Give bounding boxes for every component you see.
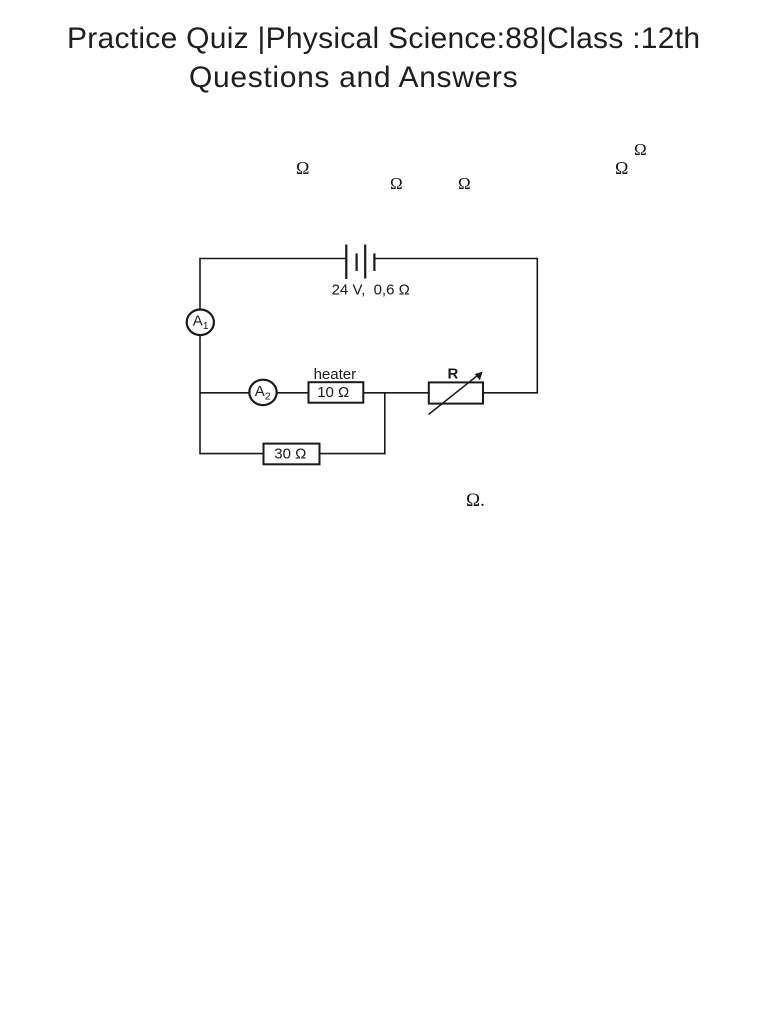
ammeter A2	[249, 380, 276, 405]
title line 1	[67, 19, 700, 59]
svg-text:heater: heater	[314, 366, 357, 383]
title line 2	[189, 58, 518, 98]
resistor R box	[429, 382, 483, 403]
node omega-3	[458, 175, 471, 192]
value label 10 ohm	[317, 384, 349, 401]
wire left vertical lower	[199, 335, 201, 454]
battery B1	[346, 245, 374, 280]
wire left vertical upper	[199, 258, 201, 310]
label R	[448, 366, 459, 383]
wire A2 to heater	[277, 392, 308, 394]
svg-text:R: R	[448, 366, 459, 383]
node omega-6	[466, 491, 485, 510]
svg-text:10 Ω: 10 Ω	[317, 384, 349, 401]
wire heater to R	[364, 392, 429, 394]
node omega-5	[634, 141, 647, 158]
resistor heater 10 ohm box	[309, 382, 364, 403]
node omega-2	[390, 175, 403, 192]
node omega-1	[296, 159, 309, 177]
wire junction vertical	[384, 393, 386, 455]
value label 30 ohm	[274, 445, 306, 462]
svg-text:A2: A2	[255, 383, 271, 402]
variable resistor arrow	[429, 372, 483, 415]
svg-text:A1: A1	[193, 313, 209, 332]
resistor 30 ohm box	[264, 444, 320, 465]
wire R to right vertical	[483, 392, 537, 394]
wire middle branch from left vertical	[200, 392, 250, 394]
wire right vertical	[536, 258, 538, 394]
label heater	[314, 366, 357, 383]
wire 30 ohm to junction	[320, 453, 386, 455]
ammeter A1	[187, 310, 214, 336]
svg-text:24 V, 0,6 Ω: 24 V, 0,6 Ω	[332, 281, 410, 298]
svg-text:30 Ω: 30 Ω	[274, 445, 306, 462]
wire bottom-left to 30 ohm	[200, 453, 264, 455]
battery value label 24V 0,6 ohm	[332, 281, 410, 298]
wire battery to top-right corner	[376, 258, 538, 260]
wire top-left to battery	[200, 258, 347, 260]
node omega-4	[615, 159, 628, 177]
